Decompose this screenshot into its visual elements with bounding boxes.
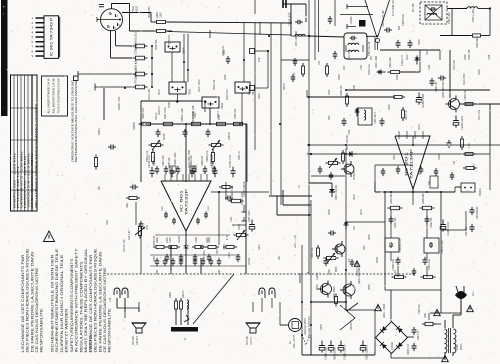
svg-text:R602 220: R602 220 [190,155,193,166]
svg-text:CE807: CE807 [316,272,319,280]
svg-text:SB13: SB13 [252,88,255,95]
svg-text:R316 100K: R316 100K [464,73,466,85]
svg-text:SAFETY-REQUIREMENTS COMPONENTS: SAFETY-REQUIREMENTS COMPONENTS [70,258,74,353]
svg-text:C413: C413 [259,244,261,250]
svg-text:+8.5 ---- (V): +8.5 ---- (V) [294,235,297,248]
svg-text:R307: R307 [329,89,331,95]
svg-text:RIGHT 4: RIGHT 4 [136,335,139,345]
svg-text:R68: R68 [419,170,421,175]
svg-text:WELLENBEREICH/WAVE RANGES/GAMM: WELLENBEREICH/WAVE RANGES/GAMMES D'ONDES [35,103,38,208]
svg-text:R912 610: R912 610 [135,31,138,42]
svg-text:C806: C806 [329,269,331,275]
svg-text:C312: C312 [407,54,409,60]
svg-text:D80: D80 [364,245,366,250]
svg-text:L302: L302 [349,129,351,135]
svg-text:R910 47K: R910 47K [136,67,138,78]
svg-text:CM531 100n: CM531 100n [119,96,121,110]
svg-text:SB11: SB11 [188,88,192,95]
svg-text:TA7232P: TA7232P [185,188,189,215]
svg-text:C610: C610 [361,209,363,215]
svg-text:SICHERHEITSBAUTEILE IM SINN DE: SICHERHEITSBAUTEILE IM SINN DER [51,254,55,353]
svg-text:DURFEN NUR DURCH ORIGINAL TEIL: DURFEN NUR DURCH ORIGINAL TEILE [60,254,64,353]
svg-text:C407 100n: C407 100n [249,210,251,222]
svg-text:SWITCH: SWITCH [350,320,353,330]
svg-text:R904 47K: R904 47K [169,34,171,45]
svg-text:L308: L308 [489,54,491,60]
svg-text:HS02: HS02 [136,5,139,12]
svg-text:X302: X302 [397,74,399,80]
svg-text:C604: C604 [154,256,156,262]
svg-text:100K: 100K [160,12,163,18]
svg-text:ALL RESISTORS 1/4 W: ALL RESISTORS 1/4 W [52,78,56,113]
svg-text:F801: F801 [424,312,427,318]
svg-text:WF 180: WF 180 [412,3,415,12]
svg-text:IC 201: IC 201 [405,151,409,176]
svg-text:CC407 1/16: CC407 1/16 [229,155,232,168]
svg-text:R802: R802 [317,284,319,290]
svg-text:R609: R609 [169,292,172,298]
svg-text:R610 4: R610 4 [182,290,185,298]
svg-text:C481 1n: C481 1n [239,150,241,160]
svg-text:L'ECHANGE DE CES COMPOSANTS PA: L'ECHANGE DE CES COMPOSANTS PAR [21,254,25,353]
svg-text:X101: X101 [219,114,221,120]
svg-text:R410: R410 [217,248,219,254]
svg-text:R51: R51 [99,185,101,190]
svg-text:R605 100n: R605 100n [204,250,206,262]
svg-text:R310 1K: R310 1K [405,110,408,120]
svg-text:C310: C310 [419,124,421,130]
svg-text:BETRIEBSSPANNUNG GEGEN MASSE: BETRIEBSSPANNUNG GEGEN MASSE [74,80,78,162]
svg-text:4.7K: 4.7K [136,59,138,64]
svg-text:IC 901 TA 7343 P: IC 901 TA 7343 P [50,17,54,57]
svg-text:R502 5.6K: R502 5.6K [142,107,145,119]
svg-text:SPK 601: SPK 601 [132,335,135,345]
svg-text:IN ACCORDANCE WITH PRESENT SAF: IN ACCORDANCE WITH PRESENT SAFETY [75,248,79,353]
svg-text:C315: C315 [474,164,476,170]
svg-text:CE601 100n: CE601 100n [174,152,177,166]
svg-text:GE302 RB05: GE302 RB05 [422,93,425,108]
svg-text:SB12: SB12 [220,102,224,109]
svg-text:C910 n: C910 n [155,112,158,120]
svg-text:R302 56K: R302 56K [476,37,479,48]
svg-text:R601 220: R601 220 [162,155,165,166]
svg-text:R311 2K2: R311 2K2 [479,109,481,120]
svg-text:D503 1N4148: D503 1N4148 [346,135,349,150]
svg-text:D806: D806 [369,284,371,290]
svg-text:R607 220: R607 220 [311,247,314,258]
svg-text:D305: D305 [479,69,481,75]
svg-text:10K: 10K [319,60,321,65]
svg-text:RESPONSABILITE: RESPONSABILITE [40,308,44,353]
svg-text:BC547B: BC547B [353,171,356,180]
svg-text:IC 601: IC 601 [180,190,184,212]
svg-text:AC ~: AC ~ [471,290,475,296]
svg-text:CW401 L601: CW401 L601 [441,239,444,254]
svg-text:L304: L304 [429,64,431,70]
svg-text:1691: 1691 [126,202,129,208]
svg-text:C313 20n: C313 20n [454,59,456,70]
svg-text:R906: R906 [136,44,138,50]
svg-text:C606 22n: C606 22n [201,155,204,166]
svg-text:T304 RE1 3B: T304 RE1 3B [368,41,371,56]
svg-text:2K: 2K [394,270,397,273]
svg-text:REGULATIONS. THESE COMPONENTS: REGULATIONS. THESE COMPONENTS [79,261,83,353]
svg-text:T801: T801 [456,344,459,350]
svg-text:R912: R912 [199,79,201,85]
svg-text:P402 22K: P402 22K [234,108,237,119]
svg-text:C407: C407 [169,237,172,243]
svg-text:C902: C902 [225,74,227,80]
svg-text:2.2K: 2.2K [469,143,471,148]
svg-text:D304: D304 [339,74,341,80]
svg-text:DE FAIRE PERDRE LA SECURITE DA: DE FAIRE PERDRE LA SECURITE DANS [30,251,34,353]
svg-text:C412: C412 [229,252,231,258]
svg-text:L1B: L1B [109,297,112,302]
svg-text:R608 100: R608 100 [154,235,156,246]
svg-text:S201 X101: S201 X101 [164,106,167,119]
svg-text:33mH: 33mH [377,257,379,263]
svg-text:C4105 197B: C4105 197B [289,12,292,26]
svg-text:CE303: CE303 [350,16,353,24]
svg-text:C5403 100n: C5403 100n [242,192,244,205]
svg-text:C54107: C54107 [229,131,231,140]
svg-text:C408: C408 [195,237,198,243]
svg-text:C406: C406 [207,237,209,243]
svg-text:C920 4.7u: C920 4.7u [227,89,229,100]
svg-text:R301 6K8: R301 6K8 [389,57,392,68]
svg-text:GANGED WITH: GANGED WITH [304,318,307,335]
svg-text:CE103 1/16: CE103 1/16 [148,155,151,168]
svg-text:C311 30p: C311 30p [349,49,351,60]
svg-text:C80 15n: C80 15n [465,226,468,236]
svg-text:VR60: VR60 [239,223,241,230]
svg-text:R80 100/16: R80 100/16 [334,347,337,360]
svg-text:R920 1K: R920 1K [159,105,161,115]
svg-text:OPERATING VOLTAGE MEASURED: OPERATING VOLTAGE MEASURED TO GROUND [70,80,74,162]
svg-text:OSD: OSD [394,155,396,160]
svg-text:220V~: 220V~ [460,342,463,350]
svg-text:4H6: 4H6 [258,57,261,62]
svg-text:S8110: S8110 [283,83,286,90]
svg-text:X301: X301 [354,84,356,90]
svg-text:C306 15n: C306 15n [430,217,433,228]
svg-text:D301 1N60: D301 1N60 [375,55,378,68]
svg-text:TA7313AP: TA7313AP [410,149,414,179]
svg-text:CE602 47n: CE602 47n [210,153,213,166]
svg-text:C80 4.7n: C80 4.7n [417,330,420,340]
svg-text:ALL WIDER STANDE 1/4 W: ALL WIDER STANDE 1/4 W [47,78,51,113]
svg-text:R306 680: R306 680 [422,193,425,204]
svg-text:1N4001: 1N4001 [391,341,394,350]
svg-text:R308: R308 [439,154,441,160]
svg-text:R304 680: R304 680 [390,193,393,204]
svg-text:DES PIECES NON HOMOLOGUEES RIS: DES PIECES NON HOMOLOGUEES RISQUE [94,248,98,353]
svg-text:CE105 1/90: CE105 1/90 [124,239,126,252]
svg-text:R605: R605 [329,209,331,215]
svg-text:C309 3.3n: C309 3.3n [392,258,395,270]
svg-text:C805 4.7n: C805 4.7n [407,343,410,355]
svg-text:SO/58: SO/58 [164,133,166,140]
svg-text:CE406: CE406 [179,235,181,243]
svg-text:L307: L307 [361,64,363,70]
svg-text:DES PIECES NON HOMOLOGUEES RIS: DES PIECES NON HOMOLOGUEES RISQUE [26,248,30,353]
svg-text:T800 mA: T800 mA [418,304,421,314]
svg-text:C910: C910 [159,89,161,95]
svg-text:ALN C305 10/16: ALN C305 10/16 [392,0,395,16]
svg-text:SPK 501: SPK 501 [246,335,249,345]
svg-text:D602: D602 [369,234,371,240]
svg-text:R303 220: R303 220 [464,89,467,100]
svg-text:1691: 1691 [107,219,109,225]
svg-text:R608: R608 [156,237,159,243]
svg-text:C26 1/90: C26 1/90 [129,230,131,240]
svg-text:ERSETZT WERDEN: ERSETZT WERDEN [64,308,68,353]
svg-text:SICHERHEITSBESTIMMUNG DIESE TE: SICHERHEITSBESTIMMUNG DIESE TEILE [55,248,59,353]
svg-text:VOLUME CONTROL: VOLUME CONTROL [308,315,311,338]
svg-text:C306 DRM: C306 DRM [402,14,405,26]
svg-text:S8401: S8401 [99,128,101,135]
svg-text:L'ECHANGE DE CES COMPOSANTS PA: L'ECHANGE DE CES COMPOSANTS PAR [89,254,93,353]
svg-text:R315: R315 [427,49,429,55]
svg-text:C605 22n: C605 22n [153,155,156,166]
svg-text:TOUTES RESISTANCES 1/4 W: TOUTES RESISTANCES 1/4 W [57,78,61,113]
svg-text:RESPONSABILITE: RESPONSABILITE [108,308,112,353]
svg-text:R604: R604 [224,244,226,250]
svg-text:X401: X401 [189,149,191,155]
svg-text:C307 3.3n: C307 3.3n [428,258,431,270]
svg-text:L401: L401 [230,216,233,222]
svg-text:D806: D806 [336,266,338,272]
svg-text:Q302 2SC2320: Q302 2SC2320 [442,81,445,98]
svg-text:MUST ONLY BE REPLACED BY ORIGI: MUST ONLY BE REPLACED BY ORIGINAL [84,249,88,353]
svg-text:C803 2200/16: C803 2200/16 [366,344,369,360]
svg-text:C304 15n: C304 15n [394,217,397,228]
svg-text:R605 5.6K: R605 5.6K [231,185,234,197]
svg-text:CE305 10/16: CE305 10/16 [461,115,464,130]
svg-text:CE415: CE415 [249,257,251,265]
svg-text:D801 ~ D804: D801 ~ D804 [383,303,386,318]
svg-text:T305 L306: T305 L306 [448,12,451,24]
svg-text:SB10: SB10 [182,47,186,54]
svg-text:AR5: AR5 [343,65,346,70]
svg-text:1u50: 1u50 [224,49,226,55]
svg-text:C304 DRM 180: C304 DRM 180 [382,10,385,27]
svg-text:X403: X403 [195,112,197,118]
svg-text:D303: D303 [419,39,421,45]
svg-text:L303 10uH: L303 10uH [374,112,377,124]
svg-text:S316: S316 [258,93,261,99]
svg-text:SB13: SB13 [249,89,251,95]
svg-text:R610: R610 [354,194,356,200]
svg-text:LEFT 4: LEFT 4 [250,337,253,345]
svg-text:R922 10K: R922 10K [214,79,216,90]
svg-text:C61: C61 [354,225,356,230]
svg-text:R30: R30 [329,115,331,120]
svg-text:R506 2.2K: R506 2.2K [206,150,209,162]
svg-text:C303 3.3n: C303 3.3n [369,64,371,75]
svg-text:C307 185: C307 185 [468,49,471,60]
svg-text:CW402 2.2n: CW402 2.2n [399,238,402,252]
svg-text:SO56: SO56 [169,101,171,108]
svg-text:D504 1N4148: D504 1N4148 [335,185,338,200]
svg-text:L501: L501 [147,224,149,230]
svg-text:R302: R302 [465,54,467,60]
svg-text:CE805 100/16: CE805 100/16 [344,344,347,360]
svg-text:CW406: CW406 [134,122,136,130]
svg-text:D302: D302 [389,104,391,110]
svg-text:C80 600/63: C80 600/63 [476,206,479,219]
svg-text:HS01: HS01 [132,5,135,12]
svg-text:DE FAIRE PERDRE LA SECURITE DA: DE FAIRE PERDRE LA SECURITE DANS [98,251,102,353]
svg-text:R61: R61 [279,255,281,260]
svg-text:CE CAS NOUS DEGAGEONS NOTRE: CE CAS NOUS DEGAGEONS NOTRE [35,267,39,353]
svg-text:R901 100K: R901 100K [149,6,151,18]
svg-text:C405: C405 [167,237,169,243]
svg-text:CW531 100n: CW531 100n [181,107,184,122]
svg-text:R804 1K: R804 1K [357,266,359,276]
svg-text:T/5(A) 1.5: T/5(A) 1.5 [401,55,404,66]
svg-text:Q803: Q803 [321,324,323,330]
svg-text:ZF/FI 455kHz/10.7MHz: ZF/FI 455kHz/10.7MHz [31,151,34,208]
svg-text:SW301: SW301 [479,187,482,196]
svg-text:R309 10K: R309 10K [340,85,343,96]
svg-text:CE803 100n: CE803 100n [325,346,328,360]
svg-text:R908 39K: R908 39K [156,39,158,50]
svg-text:C918: C918 [199,86,201,92]
svg-text:DIAL LIGHT: DIAL LIGHT [293,335,296,348]
svg-text:24B L305 180: 24B L305 180 [295,30,298,46]
svg-text:CE303 10/16: CE303 10/16 [447,221,450,236]
svg-text:C916 100n: C916 100n [149,88,151,100]
svg-text:CE CAS NOUS DEGAGEONS NOTRE: CE CAS NOUS DEGAGEONS NOTRE [103,267,107,353]
svg-text:28F: 28F [371,55,373,60]
